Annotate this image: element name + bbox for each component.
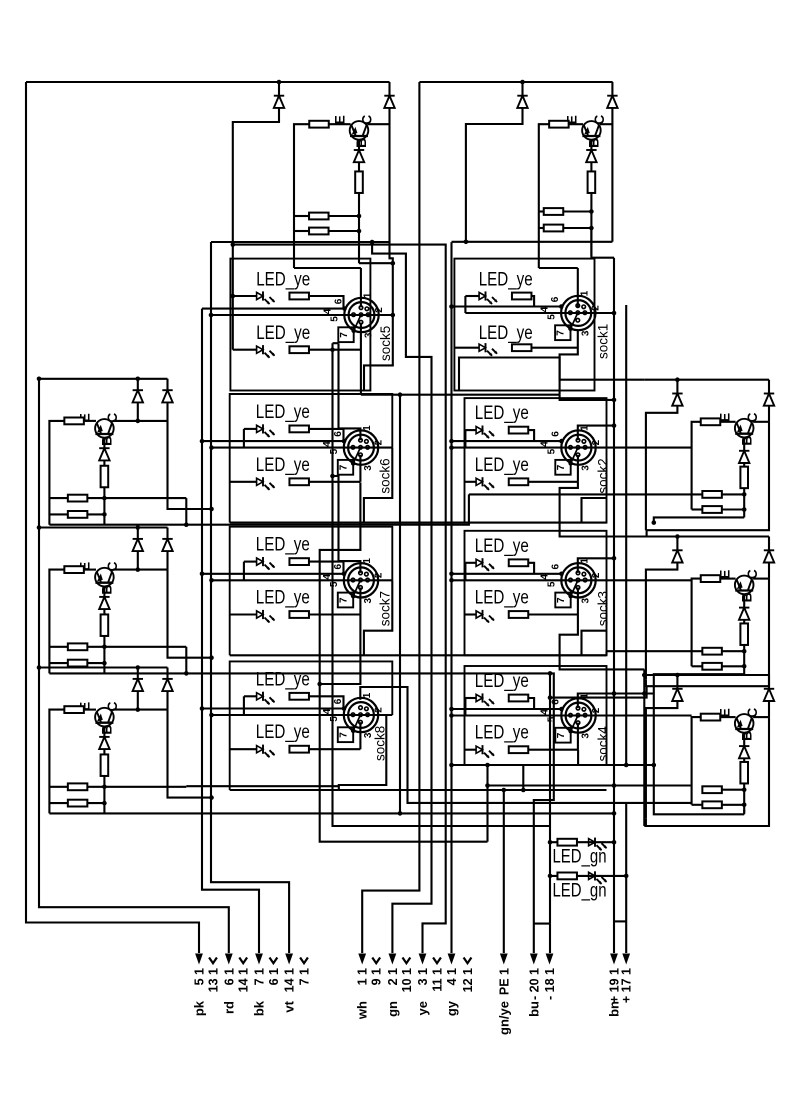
diode DL3c xyxy=(99,737,109,749)
diode DL2a xyxy=(133,539,143,551)
wire L1 R1 left xyxy=(49,497,67,499)
resistor RR3d xyxy=(702,801,722,808)
LED LED_ye sock6 row1 xyxy=(257,424,275,437)
wire L1 diode2 top xyxy=(166,379,168,390)
svg-text:gy: gy xyxy=(444,1000,459,1016)
resistor of LED_ye sock1 row2 xyxy=(512,344,532,351)
wire sock5 row1 xyxy=(233,295,257,297)
resistor RR1d xyxy=(702,506,722,513)
svg-text:2: 2 xyxy=(373,439,384,445)
node Rb3 row1 xyxy=(742,787,747,792)
wire R1b down xyxy=(358,193,360,263)
transistor TR3 xyxy=(735,714,754,733)
resistor of LED_ye sock7 row1 xyxy=(289,558,309,565)
wire bus17 upper drop xyxy=(625,803,627,876)
wire Rb2 diodeB to C xyxy=(768,562,770,579)
wire E T2 xyxy=(569,123,583,125)
resistor RL2d xyxy=(68,660,88,667)
node L1 diode junction xyxy=(136,377,141,382)
svg-text:LED_ye: LED_ye xyxy=(256,534,310,556)
wire L1 B xyxy=(103,438,105,448)
svg-text:C: C xyxy=(744,708,760,718)
socket sock3 pin6 junction xyxy=(559,572,564,577)
wire sock3 row2 xyxy=(465,613,477,615)
terminal mark 7 1 xyxy=(300,958,308,964)
svg-text:14 1: 14 1 xyxy=(283,968,297,992)
resistor of LED_ye sock8 row1 xyxy=(289,693,309,700)
wire L3 C ext xyxy=(168,710,212,798)
node right supply tap 487 xyxy=(485,783,490,788)
svg-text:4: 4 xyxy=(323,308,334,314)
wire Rb3 R2 right xyxy=(722,804,744,806)
wire bus 400 xyxy=(399,395,401,814)
wire sock6 pin3 bus xyxy=(320,483,488,842)
wire sock7 pin2 fold xyxy=(364,580,392,655)
socket sock8 pin7 box xyxy=(338,727,353,742)
wire sock4 pin6 line xyxy=(452,708,562,710)
svg-text:C: C xyxy=(744,569,760,579)
wire sock4 row1b xyxy=(528,698,534,709)
node Rb1 row1 xyxy=(742,492,747,497)
wire Rb1 bypass end xyxy=(645,523,647,530)
LED LED_ye sock5 row2 xyxy=(257,345,275,358)
node L3 diode junction xyxy=(136,665,141,670)
wire sock7 row2b xyxy=(309,613,360,615)
node sock2 pin1 bus xyxy=(612,423,617,428)
wire sock3 pin2 fold xyxy=(582,631,607,656)
wire Rb3 diodeA bypass xyxy=(646,701,678,819)
wire L2 B xyxy=(103,586,105,596)
wire sock8 pin6 line xyxy=(202,707,344,709)
wire sock7 pin6 line xyxy=(202,573,344,575)
wire sock5 7box link xyxy=(333,342,339,344)
svg-text:LED_ye: LED_ye xyxy=(256,322,310,344)
wire Rb1 R2 right xyxy=(722,508,744,510)
svg-text:+ 17 1: + 17 1 xyxy=(620,968,634,1003)
wire diode D1a anode xyxy=(278,82,280,96)
node bk sock6 pin6 xyxy=(200,439,205,444)
wire Rb1 R1 row ext xyxy=(469,493,702,495)
node L1 C junction xyxy=(136,419,141,424)
node Rb3 row2 xyxy=(742,803,747,808)
wire sock5 row2b xyxy=(309,349,361,351)
wire L2 diode1 top xyxy=(137,528,139,539)
wire Rb3 rail feed xyxy=(643,669,645,826)
socket sock3 pin7 link xyxy=(571,580,578,596)
socket sock1 pin6 junction xyxy=(559,304,564,309)
enclosure box sock5 xyxy=(230,259,370,391)
wire E bottom link xyxy=(294,267,361,269)
wire L2 E xyxy=(84,569,96,571)
terminal mark 11 1 xyxy=(433,958,441,964)
wire sock2 row1b xyxy=(528,430,534,441)
svg-text:6: 6 xyxy=(333,563,344,569)
svg-text:5: 5 xyxy=(546,314,557,320)
wire L3 B2 xyxy=(103,749,105,755)
wire diode D2a anode xyxy=(521,82,523,96)
node L1 rail tap xyxy=(37,377,42,382)
wire Rb2 row ext jog xyxy=(605,651,607,655)
socket sock4 pin6 junction xyxy=(559,707,564,712)
wire sock6 row2 xyxy=(230,481,257,483)
wire diode D2b anode xyxy=(611,82,613,96)
transistor TL3 xyxy=(95,708,114,727)
terminal mark 13 1 xyxy=(209,958,217,964)
wire B T2 xyxy=(590,140,592,150)
svg-text:bk: bk xyxy=(252,1000,267,1016)
node vt sock8 pin4 xyxy=(209,713,214,718)
socket sock6 pin7 junction xyxy=(351,461,356,466)
wire sock8 row1b xyxy=(309,696,344,708)
terminal arrow vt xyxy=(285,954,293,965)
wire L2 top rail xyxy=(39,526,168,528)
wire Rb2 bypass end xyxy=(645,680,647,687)
resistor of LED_ye sock7 row2 xyxy=(289,611,309,618)
node bus400 top xyxy=(398,392,403,397)
wire Rb2 diodeA top xyxy=(676,537,678,551)
terminal arrow ye xyxy=(419,954,427,965)
node Rb2 C tap xyxy=(548,695,553,700)
node 611 pin3 tap xyxy=(612,398,617,403)
svg-text:2: 2 xyxy=(591,572,602,578)
resistor of LED_ye sock3 row1 xyxy=(509,559,529,566)
svg-text:2: 2 xyxy=(373,572,384,578)
wire sock5 pin2 fold xyxy=(364,315,393,391)
terminal arrow +19 xyxy=(610,954,618,965)
node bk sock8 pin6 xyxy=(200,706,205,711)
svg-text:2: 2 xyxy=(591,439,602,445)
wire L3 row1 long ext xyxy=(186,785,338,787)
svg-text:7: 7 xyxy=(556,330,567,336)
wire L2 diode2 top xyxy=(166,528,168,539)
wire R1e to left edge xyxy=(294,124,309,268)
svg-text:1 1: 1 1 xyxy=(356,968,370,985)
node L2 C junction xyxy=(136,567,141,572)
wire sock6 pin4 line xyxy=(212,447,393,449)
wire L2 diode1 bot xyxy=(137,551,139,570)
LED LED_ye sock8 row2 xyxy=(257,745,275,758)
LED LED_ye sock1 row1 xyxy=(479,291,497,304)
socket sock2 pin7 box xyxy=(555,460,570,475)
node Rb1 row2 xyxy=(742,507,747,512)
node gn branch xyxy=(370,240,375,245)
wire sock5 pin7 bus xyxy=(333,343,551,826)
wire TL bottom rail xyxy=(211,241,390,243)
socket sock8 pin7 junction xyxy=(351,729,356,734)
socket sock2 body xyxy=(561,430,595,464)
wire Rb3 B3 xyxy=(743,783,745,812)
wire bus17 upper xyxy=(625,305,627,765)
svg-text:6: 6 xyxy=(333,698,344,704)
svg-text:9 1: 9 1 xyxy=(370,968,384,985)
wire R2c right xyxy=(563,210,591,212)
wire sock7 pin3 xyxy=(359,588,361,615)
resistor R2b xyxy=(588,171,596,193)
resistor RL2b xyxy=(101,614,109,636)
node L3 rail tap xyxy=(37,665,42,670)
wire sock8 pin3 xyxy=(359,722,361,749)
wire sock8 row1 drop xyxy=(243,696,245,715)
wire sock4 pin3 xyxy=(577,723,579,750)
wire L3 E xyxy=(84,709,96,711)
resistor of LED_ye sock3 row2 xyxy=(509,611,529,618)
svg-text:LED_ye: LED_ye xyxy=(256,587,310,609)
diode DL1b xyxy=(162,390,172,402)
wire Rb2 C tail xyxy=(550,579,769,698)
svg-text:bu: bu xyxy=(526,1001,541,1017)
wire sock3 row1 drop xyxy=(464,563,466,581)
wire L1 bottom rail xyxy=(49,494,469,524)
wire Rb2 B xyxy=(743,594,745,607)
wire Rb1 diodeA bypass xyxy=(646,405,678,523)
LED LED_ye sock1 row2 xyxy=(479,343,497,356)
node T1 row2 xyxy=(357,229,362,234)
wire L3 R2 right xyxy=(87,802,104,804)
node sock4 pin1 join xyxy=(612,691,617,696)
svg-text:sock2: sock2 xyxy=(596,458,611,493)
resistor RR3b xyxy=(740,762,748,784)
node sock7 pin3 tap xyxy=(317,682,322,687)
node L2 ext xyxy=(184,671,189,676)
terminal arrow pk xyxy=(195,954,203,965)
wire sock5 pin6 line xyxy=(202,308,345,310)
svg-text:B: B xyxy=(99,724,115,734)
svg-text:5: 5 xyxy=(329,716,340,722)
svg-text:4 1: 4 1 xyxy=(445,968,459,985)
resistor of LED_ye sock1 row1 xyxy=(512,293,532,300)
svg-text:gn/ye: gn/ye xyxy=(496,1001,511,1035)
node vt sock6 pin4 xyxy=(209,445,214,450)
wire vt bus xyxy=(211,242,289,953)
wire Rb2 top rail xyxy=(644,535,769,537)
wire R1c right xyxy=(329,215,360,217)
svg-text:7: 7 xyxy=(556,732,567,738)
wire L3 B3 xyxy=(103,776,105,814)
node vt sock5 pin4 xyxy=(209,313,214,318)
socket sock6 pin7 box xyxy=(338,460,353,475)
svg-text:10 1: 10 1 xyxy=(400,968,414,992)
resistor RL1e xyxy=(64,418,84,425)
svg-text:6: 6 xyxy=(550,699,561,705)
wire wh bus xyxy=(362,82,419,953)
svg-text:C: C xyxy=(104,561,120,571)
terminal arrow rd xyxy=(225,954,233,965)
wire sock7 row2 xyxy=(230,613,257,615)
diode DL1c xyxy=(99,448,109,460)
wire sock8 pin1 bus xyxy=(360,687,691,803)
enclosure box sock4 xyxy=(465,666,607,765)
wire L1 R2 left xyxy=(49,513,67,515)
resistor R1c xyxy=(309,213,329,220)
wire R2c left xyxy=(539,210,544,212)
wire sock4 pin3 ext xyxy=(577,750,579,765)
wire sock1 row1 xyxy=(465,295,479,297)
socket sock1 pin7 junction xyxy=(568,327,573,332)
socket sock2 pin7 link xyxy=(571,447,578,463)
node PE tap xyxy=(502,788,507,793)
resistor RL1c xyxy=(68,495,88,502)
wire D1a to bypass xyxy=(233,108,279,350)
socket sock7 pin7 link xyxy=(353,580,360,596)
wire rail corner to pin2 bus xyxy=(390,242,393,315)
wire sock3 pin4 line xyxy=(452,579,692,581)
svg-text:1: 1 xyxy=(362,692,373,698)
wire D2a bypass xyxy=(466,108,523,242)
wire D1b to C xyxy=(388,108,390,243)
svg-text:sock4: sock4 xyxy=(596,726,611,762)
node ledgn row2 right xyxy=(624,874,629,879)
diode DR3c xyxy=(739,746,749,758)
LED LED_ye sock2 row2 xyxy=(476,477,494,490)
enclosure box sock3 xyxy=(465,531,607,656)
wire sock1 pin6 line xyxy=(452,305,562,307)
terminal arrow gy xyxy=(448,954,456,965)
socket sock8 pin7 link xyxy=(353,715,360,731)
diode DR1b xyxy=(764,394,774,406)
wire Rb3 B2 xyxy=(743,758,745,763)
svg-text:LED_ye: LED_ye xyxy=(475,587,529,609)
wire sock7 row1 xyxy=(244,561,257,563)
terminal mark 6 1 xyxy=(270,958,278,964)
resistor R2c xyxy=(544,208,564,215)
wire -18 drop xyxy=(549,924,551,953)
LED LED_ye sock3 row1 xyxy=(476,558,494,571)
wire Rb2 E xyxy=(720,578,735,580)
svg-text:C: C xyxy=(591,115,607,125)
wire sock2 pin1 xyxy=(578,426,614,441)
LED LED_ye sock8 row1 xyxy=(257,692,275,705)
wire sock3 pin1 xyxy=(578,558,614,573)
node top rail / diode junction xyxy=(277,80,282,85)
svg-text:5: 5 xyxy=(329,581,340,587)
wire Rb3 diodeA top xyxy=(676,675,678,689)
wire Rb1 diodeB top xyxy=(768,380,770,394)
node gy sock3 pin6 xyxy=(449,572,454,577)
svg-text:6: 6 xyxy=(550,296,561,302)
terminal mark 12 1 xyxy=(464,958,472,964)
wire sock4 pin3 rail drop2 xyxy=(654,765,744,814)
wire sock6 pin3 xyxy=(359,455,361,482)
wire sock7 row1b xyxy=(309,562,344,574)
wire sock4 row2 xyxy=(465,749,477,751)
socket sock4 body xyxy=(561,698,595,732)
wire sock2 pin3 xyxy=(577,455,579,482)
svg-text:- 18 1: - 18 1 xyxy=(543,968,557,1000)
svg-text:4: 4 xyxy=(540,441,551,447)
wire C T2 xyxy=(600,123,612,125)
svg-text:C: C xyxy=(359,115,375,125)
wire box bottom bus row8 xyxy=(230,789,607,791)
wire Rb2 B3 xyxy=(743,645,745,674)
wire Rb1 B xyxy=(743,437,745,450)
wire L3 bottom rail bus xyxy=(49,812,614,814)
svg-text:- 20 1: - 20 1 xyxy=(527,968,541,1000)
node ledgn row2 left xyxy=(548,874,553,879)
diode D1a xyxy=(274,96,284,108)
socket sock5 pin7 junction xyxy=(351,329,356,334)
node Rb3 diode junction xyxy=(675,673,680,678)
node L3 row1 xyxy=(102,785,107,790)
wire sock5 row2 xyxy=(233,349,257,351)
wire D2c to R2b xyxy=(590,162,592,172)
wire Rb2 diodeB top xyxy=(768,537,770,551)
node L2 rail tap xyxy=(37,525,42,530)
wire bu bridge xyxy=(534,923,550,925)
diode DR3a xyxy=(672,689,682,701)
wire sock7 row1 drop xyxy=(243,562,245,581)
wire Rb3 E xyxy=(720,716,735,718)
wire gy bus xyxy=(450,242,452,953)
svg-text:5 1: 5 1 xyxy=(193,968,207,985)
wire sock8 pin4 line xyxy=(212,714,393,716)
node T2 row1 xyxy=(589,209,594,214)
svg-text:1: 1 xyxy=(362,558,373,564)
node T2 row2 xyxy=(589,226,594,231)
diode D1c xyxy=(354,150,364,162)
terminal arrow gn xyxy=(389,954,397,965)
svg-text:7: 7 xyxy=(338,597,349,603)
wire Rb1 diodeA top xyxy=(676,380,678,394)
wire E T1 xyxy=(329,123,351,125)
socket sock7 pin7 box xyxy=(338,593,353,608)
svg-text:3: 3 xyxy=(363,597,374,603)
wire L3 diode1 top xyxy=(137,668,139,679)
wire sock4 pin1 xyxy=(578,694,614,709)
svg-text:sock3: sock3 xyxy=(596,591,611,626)
diode D2b xyxy=(607,96,617,108)
wire bus19 main xyxy=(613,258,615,953)
svg-text:B: B xyxy=(99,584,115,594)
svg-text:5: 5 xyxy=(329,448,340,454)
svg-text:LED_ye: LED_ye xyxy=(256,268,310,290)
socket sock2 pin6 junction xyxy=(559,439,564,444)
wire sock5 pin3 east xyxy=(361,394,560,396)
wire R2e to left edge xyxy=(539,124,549,268)
terminal arrow +17 xyxy=(622,954,630,965)
socket sock3 body xyxy=(561,563,595,597)
wire B T1 xyxy=(358,140,360,150)
wire Rb1 E xyxy=(720,421,735,423)
svg-text:7: 7 xyxy=(556,597,567,603)
svg-text:3: 3 xyxy=(364,332,375,338)
resistor RL2c xyxy=(68,643,88,650)
wire sock1 pin4 line xyxy=(465,312,614,314)
node bu550 top xyxy=(548,671,553,676)
wire L2 R1 left xyxy=(49,646,67,648)
node Rb2 B on rail xyxy=(652,763,657,768)
wire L2 E corner xyxy=(49,570,64,674)
wire L2 row1 ext drop xyxy=(185,647,187,674)
diode DR2b xyxy=(764,550,774,562)
wire L1 B2 xyxy=(103,460,105,466)
LED LED_ye sock7 row1 xyxy=(257,557,275,570)
node gy sock2 pin6 xyxy=(449,439,454,444)
wire Rb3 diodeB top xyxy=(768,675,770,689)
wire Rb1 B3 xyxy=(743,488,745,517)
wire sock8 pin2 fold xyxy=(339,715,387,790)
node pin2 sock1 xyxy=(612,311,617,316)
resistor RL3b xyxy=(101,754,109,776)
wire L1 E corner xyxy=(49,421,64,525)
node sock5 row2 bus xyxy=(330,347,335,352)
diode D2a xyxy=(517,96,527,108)
transistor TR1 xyxy=(735,419,754,438)
svg-text:1: 1 xyxy=(362,425,373,431)
wire Rb3 B tail xyxy=(743,810,745,815)
node bus19 813 xyxy=(612,811,617,816)
svg-text:4: 4 xyxy=(322,708,333,714)
svg-text:B: B xyxy=(738,592,754,602)
